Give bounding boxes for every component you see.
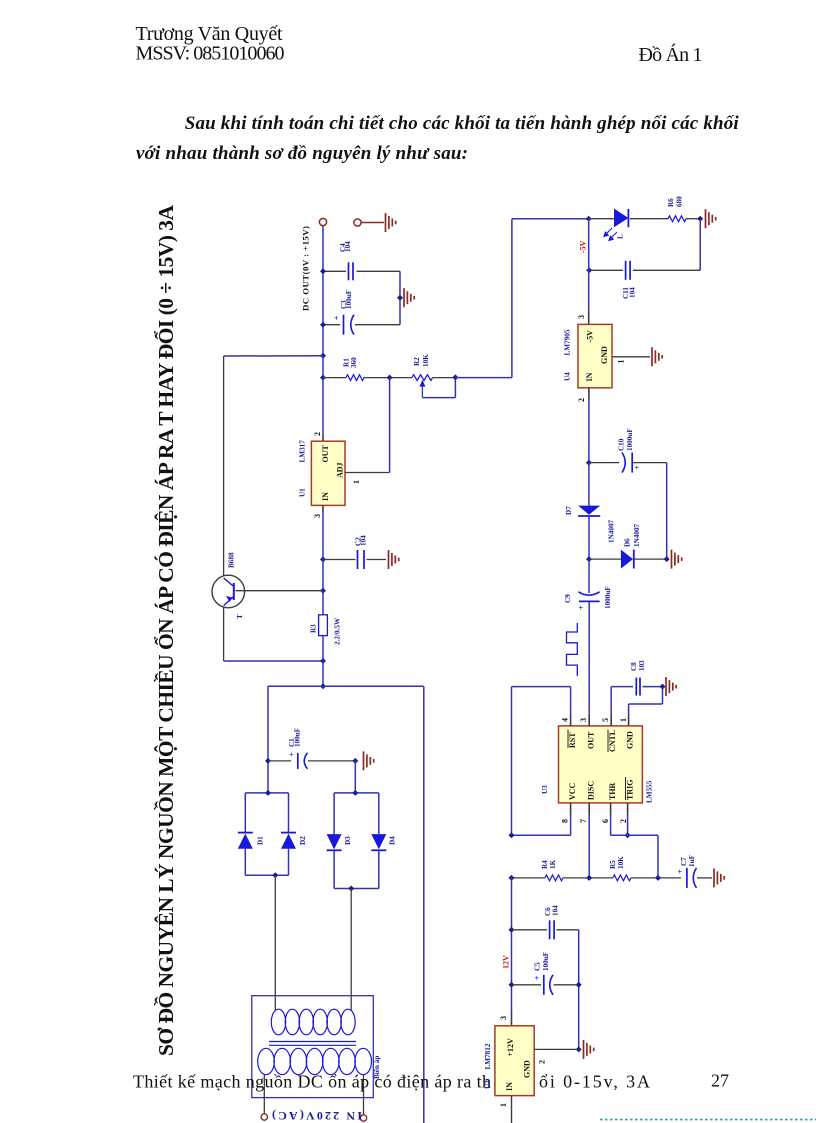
resistor R4 1K bbox=[545, 875, 563, 881]
resistor R6 680 bbox=[668, 216, 686, 222]
ground (D6/C10) bbox=[672, 550, 682, 569]
svg-text:3: 3 bbox=[313, 514, 322, 518]
svg-text:2.2/0.5W: 2.2/0.5W bbox=[334, 617, 342, 645]
transformer core bbox=[269, 1041, 356, 1043]
svg-text:Thiết kế mạch nguồn DC ổn áp c: Thiết kế mạch nguồn DC ổn áp có điện áp … bbox=[133, 1072, 491, 1092]
svg-text:-5V: -5V bbox=[578, 240, 587, 253]
wire C4 row bbox=[323, 270, 346, 272]
svg-text:T: T bbox=[236, 614, 244, 619]
node GND row bbox=[576, 1046, 582, 1052]
terminal AC right bbox=[360, 1115, 366, 1121]
regulator U4 LM7905 bbox=[578, 324, 612, 387]
wire C10 right leg bbox=[666, 463, 668, 559]
svg-text:1N4007: 1N4007 bbox=[633, 523, 641, 547]
svg-text:OUT: OUT bbox=[321, 445, 330, 463]
svg-text:SƠ ĐỒ NGUYÊN LÝ NGUỒN MỘT CHIỀ: SƠ ĐỒ NGUYÊN LÝ NGUỒN MỘT CHIỀU ỔN ÁP CÓ… bbox=[154, 205, 178, 1056]
svg-text:IN: IN bbox=[585, 372, 594, 381]
wire TRIG stub bbox=[627, 803, 629, 815]
wire bridge right box top bbox=[334, 792, 379, 794]
wire to transformer secondary left bbox=[274, 875, 276, 1010]
wire terminal to ground bbox=[361, 222, 384, 224]
svg-text:7: 7 bbox=[579, 819, 588, 823]
node bridge right bottom bbox=[348, 886, 354, 892]
svg-text:D1: D1 bbox=[257, 836, 265, 845]
svg-text:GND: GND bbox=[600, 346, 609, 364]
capacitor C8 103 bbox=[635, 678, 637, 696]
svg-text:+: + bbox=[678, 868, 683, 877]
svg-text:1000uF: 1000uF bbox=[626, 428, 634, 451]
diode D2 bbox=[281, 832, 296, 834]
svg-text:D3: D3 bbox=[344, 836, 352, 845]
wire ADJ pin bbox=[345, 472, 390, 474]
wire C3 row bbox=[323, 324, 340, 326]
wire C8 node to GND pin bbox=[662, 687, 664, 704]
svg-text:104: 104 bbox=[359, 535, 367, 546]
wire U4 pin2 stub bbox=[588, 388, 590, 400]
svg-text:2: 2 bbox=[577, 398, 586, 402]
svg-text:D7: D7 bbox=[565, 506, 573, 515]
wire OUT stub bbox=[588, 714, 590, 726]
svg-text:5: 5 bbox=[601, 718, 610, 722]
svg-text:U1: U1 bbox=[299, 488, 307, 497]
svg-text:LM7905: LM7905 bbox=[564, 329, 572, 355]
resistor R5 10K bbox=[613, 875, 631, 881]
wire collector bbox=[223, 356, 225, 576]
ground (R6) bbox=[706, 209, 716, 228]
svg-text:27: 27 bbox=[711, 1071, 729, 1091]
square wave symbol bbox=[567, 623, 578, 676]
node output/collector bbox=[320, 353, 326, 359]
svg-text:3: 3 bbox=[579, 718, 588, 722]
node bridge right top bbox=[352, 790, 358, 796]
svg-text:MSSV: 0851010060: MSSV: 0851010060 bbox=[136, 43, 285, 65]
ground (U4 GND) bbox=[652, 347, 662, 366]
node R4 left bbox=[509, 875, 515, 881]
svg-text:104: 104 bbox=[552, 905, 560, 916]
terminal DC OUT + bbox=[319, 218, 326, 225]
svg-text:1000uF: 1000uF bbox=[604, 586, 612, 609]
svg-text:IN 220V(AC): IN 220V(AC) bbox=[272, 1109, 362, 1123]
svg-text:10K: 10K bbox=[422, 354, 430, 367]
svg-text:C7: C7 bbox=[680, 857, 688, 866]
wire U2 GND pin bbox=[534, 1048, 579, 1050]
node C3C4 ground bbox=[397, 295, 403, 301]
wire bridge left box bottom bbox=[245, 874, 288, 876]
svg-text:2: 2 bbox=[619, 819, 628, 823]
capacitor C5 100uF electrolytic bbox=[543, 975, 545, 995]
R2 wiper arrow bbox=[419, 380, 425, 387]
node LED rail bbox=[586, 216, 592, 222]
transformer secondary winding bbox=[271, 1009, 355, 1035]
wire C6 right leg bbox=[578, 930, 580, 1050]
svg-text:-5V: -5V bbox=[585, 330, 594, 343]
resistor R1 bbox=[346, 375, 364, 381]
node R6 right bbox=[697, 216, 703, 222]
terminal AC left bbox=[261, 1114, 267, 1120]
node R2 right bbox=[452, 374, 458, 380]
wire R2 to LED rail bbox=[455, 377, 512, 379]
wire DISC down bbox=[588, 815, 590, 878]
ground (C1) bbox=[364, 751, 374, 770]
diode D4 bbox=[371, 834, 386, 849]
wire C5 row bbox=[512, 984, 542, 986]
wire C6 row bbox=[512, 929, 548, 931]
node main lower rail bbox=[320, 683, 326, 689]
svg-text:6: 6 bbox=[601, 819, 610, 823]
wire RST loop bbox=[570, 687, 572, 714]
svg-text:DC OUT(0V : +15V): DC OUT(0V : +15V) bbox=[301, 226, 311, 311]
svg-text:2: 2 bbox=[313, 432, 322, 436]
LED L bbox=[614, 209, 628, 228]
wire primary lead left bbox=[263, 1075, 265, 1114]
wire -5V rail bbox=[588, 219, 590, 271]
wire main output rail top bbox=[322, 226, 324, 356]
svg-text:R4: R4 bbox=[541, 860, 549, 869]
svg-text:VCC: VCC bbox=[568, 782, 577, 800]
wire U2 pin3 stub bbox=[511, 1013, 513, 1026]
capacitor C3 100uF electrolytic bbox=[343, 315, 345, 335]
wire R4 row bbox=[512, 877, 546, 879]
svg-text:IN: IN bbox=[505, 1082, 514, 1091]
wire emitter bbox=[223, 608, 225, 662]
svg-text:LM555: LM555 bbox=[646, 780, 654, 803]
svg-text:+: + bbox=[579, 604, 584, 613]
node DISC/R4/R5 bbox=[586, 875, 592, 881]
svg-text:GND: GND bbox=[625, 731, 634, 749]
node emitter/R3 bbox=[320, 658, 326, 664]
svg-text:+12V: +12V bbox=[506, 1038, 515, 1057]
wire left leg down to C1 bbox=[267, 686, 269, 793]
node R1-R2 bbox=[387, 375, 393, 381]
wire U4 GND pin bbox=[612, 356, 650, 358]
svg-text:C10: C10 bbox=[618, 438, 626, 451]
wire bridge right box sides bbox=[333, 793, 335, 834]
svg-text:1N4007: 1N4007 bbox=[608, 519, 616, 543]
node bridge left bottom bbox=[272, 872, 278, 878]
capacitor C6 104 bbox=[549, 920, 551, 939]
node D6 right / ground bbox=[664, 556, 670, 562]
wire R6 node down bbox=[699, 219, 701, 271]
svg-text:360: 360 bbox=[350, 357, 358, 368]
wire long right leg to page bottom bbox=[423, 686, 425, 1123]
node C1 left bbox=[265, 758, 271, 764]
diode D1 bbox=[238, 832, 253, 834]
capacitor C7 1uF electrolytic bbox=[686, 868, 688, 888]
node output/R1 bbox=[320, 375, 326, 381]
node base bbox=[320, 588, 326, 594]
wire C11 row bbox=[589, 269, 623, 271]
svg-text:100uF: 100uF bbox=[294, 727, 302, 747]
wire DISC stub bbox=[588, 803, 590, 815]
node C11 left bbox=[586, 267, 592, 273]
svg-text:U3: U3 bbox=[541, 785, 549, 794]
svg-text:DISC: DISC bbox=[586, 781, 595, 800]
timer U3 LM555 bbox=[559, 726, 643, 803]
svg-text:ADJ: ADJ bbox=[335, 462, 344, 478]
svg-text:104: 104 bbox=[629, 287, 637, 298]
dotted margin line bottom right bbox=[600, 1119, 816, 1121]
node bridge left top bbox=[265, 790, 271, 796]
capacitor C9 1000uF electrolytic bbox=[588, 559, 590, 593]
regulator U2 LM7812 bbox=[495, 1026, 534, 1096]
capacitor C11 104 bbox=[625, 261, 627, 280]
svg-text:D4: D4 bbox=[389, 836, 397, 845]
wire base bbox=[236, 590, 324, 592]
resistor R3 2.2/0.5W bbox=[319, 615, 328, 636]
wire U1 pin2 stub bbox=[322, 435, 324, 441]
svg-text:U4: U4 bbox=[564, 372, 572, 381]
wire bridge left box sides bbox=[244, 793, 246, 833]
svg-text:+: + bbox=[535, 974, 540, 983]
svg-text:+: + bbox=[289, 751, 294, 760]
svg-text:THR: THR bbox=[608, 782, 617, 800]
wire U4 pin3 stub bbox=[588, 312, 590, 324]
svg-text:100uF: 100uF bbox=[542, 951, 550, 971]
svg-text:Đồ Án 1: Đồ Án 1 bbox=[639, 43, 703, 66]
svg-text:4: 4 bbox=[560, 718, 569, 722]
wire LED to R6 bbox=[630, 218, 668, 220]
wire bridge left box top bbox=[245, 792, 288, 794]
resistor R2 10K potentiometer bbox=[412, 375, 433, 381]
ground (top left) bbox=[386, 213, 396, 232]
svg-text:với nhau thành sơ đồ nguyên lý: với nhau thành sơ đồ nguyên lý như sau: bbox=[136, 143, 468, 164]
wire bridge right box bottom bbox=[334, 888, 379, 890]
capacitor C2 104 bbox=[357, 550, 359, 569]
node R5 right bbox=[655, 875, 661, 881]
svg-text:B688: B688 bbox=[228, 552, 236, 568]
svg-text:100uF: 100uF bbox=[345, 289, 353, 309]
svg-text:D2: D2 bbox=[299, 836, 307, 845]
wire THR TRIG join bbox=[610, 815, 612, 835]
wire U2 pin1 down bbox=[511, 1096, 513, 1123]
svg-text:3: 3 bbox=[577, 315, 586, 319]
node C2 rail bbox=[320, 557, 326, 563]
node C6 left bbox=[509, 927, 515, 933]
svg-text:L: L bbox=[617, 234, 625, 239]
op-amp U1 LM317 regulator bbox=[311, 441, 345, 505]
wire R1 row bbox=[323, 377, 346, 379]
node VCC rail bbox=[509, 832, 515, 838]
capacitor C10 1000uF electrolytic bbox=[622, 453, 625, 473]
wire THR stub bbox=[610, 803, 612, 815]
svg-text:Sau khi tính toán chi tiết cho: Sau khi tính toán chi tiết cho các khối … bbox=[185, 113, 740, 134]
svg-text:U2: U2 bbox=[484, 1080, 492, 1089]
node C1 right bbox=[352, 758, 358, 764]
diode D7 bbox=[588, 463, 590, 506]
svg-text:1: 1 bbox=[619, 718, 628, 722]
wire VCC to 12V rail bbox=[512, 834, 571, 836]
wire CNTL stub bbox=[610, 714, 612, 726]
wire right leg C3/C4 bbox=[399, 271, 401, 324]
svg-text:R6: R6 bbox=[667, 198, 675, 207]
terminal DC OUT ground bbox=[354, 219, 361, 226]
wire VCC stub bbox=[570, 803, 572, 815]
wire U1 pin3 stub bbox=[322, 505, 324, 512]
svg-text:R5: R5 bbox=[609, 860, 617, 869]
diode D3 bbox=[327, 834, 342, 849]
node C5 left bbox=[509, 982, 515, 988]
svg-text:LM317: LM317 bbox=[299, 440, 307, 463]
node C8/ground bbox=[660, 684, 666, 690]
transformer primary winding bbox=[258, 1048, 372, 1074]
svg-text:104: 104 bbox=[344, 241, 352, 252]
svg-text:GND: GND bbox=[522, 1060, 531, 1078]
ground (C3/C4) bbox=[404, 288, 414, 307]
wire ADJ to R1R2 node bbox=[389, 378, 391, 473]
ground (U2 GND) bbox=[584, 1040, 594, 1059]
wire GND stub bbox=[628, 714, 630, 726]
svg-text:+: + bbox=[334, 314, 339, 323]
svg-text:10K: 10K bbox=[617, 856, 625, 869]
node D6 left bbox=[586, 556, 592, 562]
svg-text:8: 8 bbox=[560, 819, 569, 823]
capacitor C1 100uF electrolytic bbox=[297, 753, 299, 769]
svg-text:C8: C8 bbox=[630, 662, 638, 671]
wire D6 row bbox=[589, 558, 621, 560]
wire C1 row bbox=[268, 760, 291, 762]
svg-text:RST: RST bbox=[568, 732, 577, 748]
wire C10 row bbox=[589, 462, 619, 464]
node C3 rail bbox=[320, 322, 326, 328]
svg-text:C9: C9 bbox=[564, 594, 572, 603]
ground (C7) bbox=[714, 868, 724, 887]
svg-text:IN: IN bbox=[321, 492, 330, 501]
node C10 left bbox=[586, 460, 592, 466]
wire C1 right leg bbox=[354, 761, 356, 793]
svg-text:R2: R2 bbox=[413, 357, 421, 366]
svg-text:1: 1 bbox=[352, 480, 361, 484]
wire OUT line bbox=[588, 601, 590, 714]
svg-text:C5: C5 bbox=[534, 962, 542, 971]
wire to transformer secondary right bbox=[350, 889, 352, 1011]
svg-text:680: 680 bbox=[676, 196, 684, 207]
svg-text:LM7812: LM7812 bbox=[484, 1043, 492, 1069]
wire R2 wiper loop bbox=[454, 378, 456, 398]
capacitor C4 bbox=[348, 262, 350, 280]
svg-text:12V: 12V bbox=[501, 955, 510, 969]
wire 12V rail bbox=[511, 878, 513, 1013]
transformer box bbox=[252, 996, 373, 1098]
svg-text:1uF: 1uF bbox=[688, 854, 696, 867]
ground (C8) bbox=[666, 677, 676, 696]
svg-text:1: 1 bbox=[499, 1103, 508, 1107]
svg-text:1: 1 bbox=[616, 360, 625, 364]
wire C2 row bbox=[323, 559, 356, 561]
svg-text:OUT: OUT bbox=[586, 731, 595, 749]
node C5 right bbox=[576, 982, 582, 988]
svg-text:+: + bbox=[635, 464, 640, 473]
svg-text:3: 3 bbox=[499, 1016, 508, 1020]
svg-text:D6: D6 bbox=[624, 538, 632, 547]
svg-text:1K: 1K bbox=[549, 859, 557, 869]
svg-text:TRIG: TRIG bbox=[625, 780, 634, 800]
svg-text:R3: R3 bbox=[310, 624, 318, 633]
wire RST stub bbox=[570, 714, 572, 726]
svg-text:CNTL: CNTL bbox=[608, 730, 617, 752]
diode D6 bbox=[621, 550, 633, 569]
wire LED row bbox=[589, 218, 614, 220]
wire CNTL to C8 bbox=[610, 687, 612, 714]
transistor T B688 (PNP) bbox=[212, 575, 245, 608]
svg-text:2: 2 bbox=[537, 1060, 546, 1064]
ground (C2) bbox=[389, 550, 399, 569]
wire lower rail bbox=[268, 685, 424, 687]
wire primary lead right bbox=[363, 1075, 365, 1115]
svg-text:103: 103 bbox=[638, 660, 646, 671]
